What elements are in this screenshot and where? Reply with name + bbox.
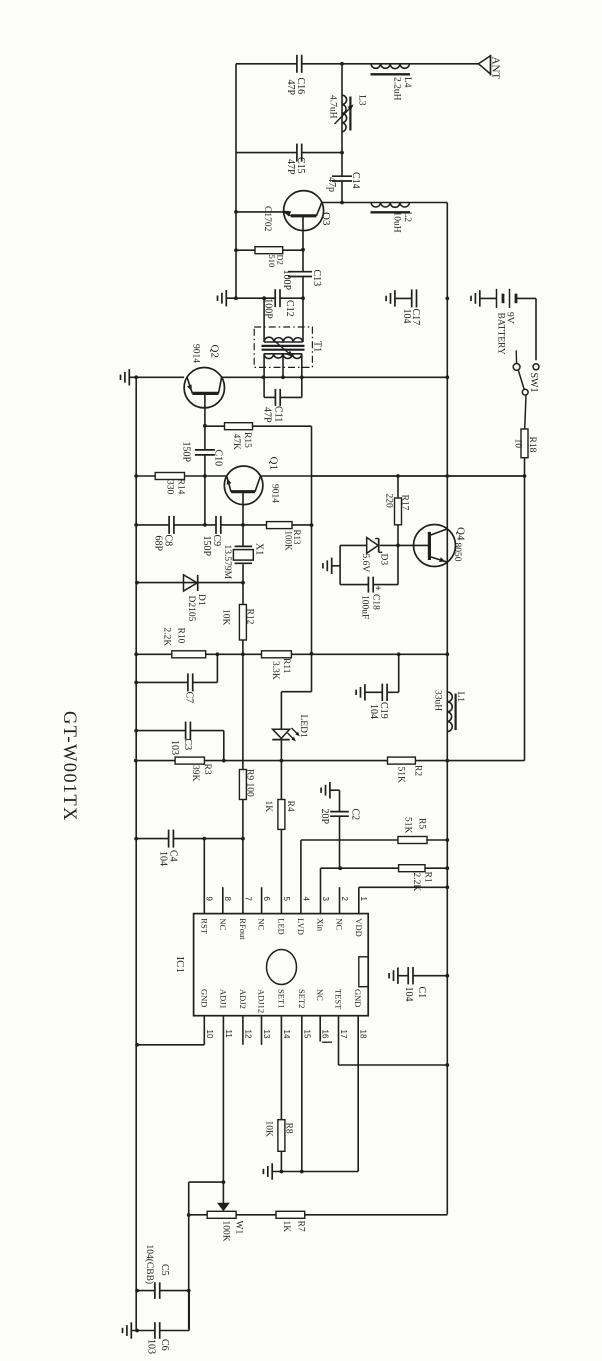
svg-text:D1: D1 bbox=[196, 594, 206, 606]
svg-text:NC: NC bbox=[257, 918, 267, 930]
svg-text:ADJ2: ADJ2 bbox=[238, 989, 248, 1009]
svg-text:Q1: Q1 bbox=[268, 457, 280, 470]
svg-text:9014: 9014 bbox=[270, 484, 280, 503]
svg-text:LED1: LED1 bbox=[298, 715, 308, 738]
svg-text:20P: 20P bbox=[319, 809, 330, 825]
svg-text:NC: NC bbox=[315, 989, 325, 1001]
svg-text:ADJ12: ADJ12 bbox=[257, 989, 267, 1013]
svg-text:D3: D3 bbox=[378, 554, 388, 566]
svg-text:10: 10 bbox=[512, 439, 522, 449]
svg-text:39K: 39K bbox=[190, 765, 200, 782]
svg-text:D2105: D2105 bbox=[186, 596, 196, 622]
svg-text:T1: T1 bbox=[311, 341, 322, 352]
svg-text:13.579M: 13.579M bbox=[222, 545, 232, 580]
svg-text:ANT: ANT bbox=[490, 57, 502, 80]
svg-text:10: 10 bbox=[205, 1030, 214, 1039]
svg-text:SW1: SW1 bbox=[528, 373, 539, 393]
svg-text:47P: 47P bbox=[285, 80, 296, 96]
svg-text:1: 1 bbox=[359, 897, 368, 902]
svg-text:3: 3 bbox=[321, 897, 330, 902]
svg-text:C18: C18 bbox=[371, 594, 381, 610]
svg-text:L3: L3 bbox=[357, 95, 367, 106]
svg-text:NC: NC bbox=[218, 918, 228, 930]
svg-text:Xin: Xin bbox=[316, 918, 326, 932]
svg-text:510: 510 bbox=[267, 255, 277, 268]
svg-text:11: 11 bbox=[224, 1030, 233, 1039]
svg-text:C13: C13 bbox=[311, 270, 322, 287]
svg-text:220: 220 bbox=[384, 494, 394, 509]
svg-text:1K: 1K bbox=[281, 1221, 291, 1233]
svg-text:2: 2 bbox=[340, 897, 349, 902]
svg-text:104: 104 bbox=[401, 309, 412, 324]
svg-text:7: 7 bbox=[243, 897, 252, 902]
svg-text:51K: 51K bbox=[396, 767, 406, 784]
svg-text:Q3: Q3 bbox=[320, 212, 332, 226]
svg-text:330: 330 bbox=[165, 480, 175, 495]
svg-text:+: + bbox=[373, 586, 383, 591]
svg-text:5: 5 bbox=[282, 897, 291, 902]
svg-text:17: 17 bbox=[339, 1030, 348, 1039]
svg-text:C10: C10 bbox=[212, 450, 223, 467]
svg-text:X1: X1 bbox=[253, 543, 264, 555]
svg-text:R14: R14 bbox=[175, 479, 185, 495]
svg-text:103: 103 bbox=[146, 1339, 157, 1354]
svg-text:LVD: LVD bbox=[296, 918, 306, 935]
svg-text:C14: C14 bbox=[350, 172, 361, 189]
svg-text:GND: GND bbox=[353, 989, 363, 1007]
svg-text:2.2K: 2.2K bbox=[411, 873, 421, 892]
svg-text:103: 103 bbox=[169, 740, 180, 755]
svg-text:104(CBB): 104(CBB) bbox=[144, 1245, 155, 1285]
svg-text:R12: R12 bbox=[244, 609, 254, 625]
svg-text:R18: R18 bbox=[527, 437, 537, 453]
svg-text:R10: R10 bbox=[176, 628, 186, 644]
svg-text:IC1: IC1 bbox=[174, 957, 186, 974]
svg-text:100P: 100P bbox=[262, 298, 273, 319]
svg-text:47p: 47p bbox=[326, 177, 337, 192]
svg-text:C7: C7 bbox=[184, 692, 195, 704]
svg-text:5.6V: 5.6V bbox=[360, 554, 370, 573]
svg-text:Q4: Q4 bbox=[455, 527, 467, 541]
svg-text:R15: R15 bbox=[242, 432, 252, 448]
svg-text:L2: L2 bbox=[402, 212, 412, 223]
svg-text:L4: L4 bbox=[402, 77, 412, 88]
svg-text:100uF: 100uF bbox=[360, 595, 370, 619]
svg-text:8050: 8050 bbox=[452, 543, 462, 562]
svg-text:GT-W001TX: GT-W001TX bbox=[59, 711, 79, 822]
svg-text:47P: 47P bbox=[285, 159, 296, 175]
svg-text:R4: R4 bbox=[285, 801, 295, 812]
svg-text:L1: L1 bbox=[455, 692, 465, 703]
svg-text:BATTERY: BATTERY bbox=[495, 313, 505, 355]
svg-text:Q2: Q2 bbox=[209, 345, 221, 358]
svg-text:47P: 47P bbox=[262, 407, 273, 423]
svg-text:47K: 47K bbox=[231, 434, 241, 451]
svg-text:R5: R5 bbox=[416, 818, 426, 829]
svg-text:C1: C1 bbox=[416, 987, 427, 999]
svg-text:10K: 10K bbox=[221, 609, 231, 626]
svg-text:NC: NC bbox=[335, 918, 345, 930]
svg-text:TEST: TEST bbox=[334, 989, 344, 1010]
svg-text:SET1: SET1 bbox=[276, 989, 286, 1008]
svg-text:R7: R7 bbox=[296, 1221, 306, 1232]
svg-text:150P: 150P bbox=[181, 442, 192, 463]
svg-text:150P: 150P bbox=[201, 536, 212, 557]
svg-text:4.7uH: 4.7uH bbox=[328, 95, 338, 119]
svg-text:104: 104 bbox=[158, 851, 169, 866]
svg-text:C3: C3 bbox=[182, 739, 193, 751]
svg-text:R11: R11 bbox=[281, 658, 291, 674]
svg-text:104: 104 bbox=[403, 987, 414, 1002]
svg-text:18: 18 bbox=[359, 1030, 368, 1039]
svg-text:RST: RST bbox=[199, 918, 209, 934]
svg-text:R3: R3 bbox=[202, 764, 212, 775]
svg-text:33uH: 33uH bbox=[433, 690, 443, 711]
svg-text:ADJ1: ADJ1 bbox=[218, 989, 228, 1009]
svg-text:9: 9 bbox=[205, 897, 214, 902]
svg-text:2.2K: 2.2K bbox=[162, 628, 172, 647]
svg-text:68P: 68P bbox=[152, 536, 163, 552]
svg-text:51K: 51K bbox=[403, 817, 413, 834]
svg-text:C12: C12 bbox=[284, 300, 295, 317]
svg-text:100P: 100P bbox=[281, 270, 292, 291]
svg-text:9014: 9014 bbox=[191, 344, 201, 363]
svg-text:C2: C2 bbox=[349, 809, 360, 821]
svg-text:R2: R2 bbox=[413, 765, 423, 776]
svg-text:R1: R1 bbox=[422, 872, 432, 883]
svg-text:2.2uH: 2.2uH bbox=[392, 77, 402, 101]
svg-text:GND: GND bbox=[199, 989, 209, 1007]
svg-text:10uH: 10uH bbox=[392, 212, 402, 233]
svg-text:14: 14 bbox=[282, 1030, 291, 1039]
svg-text:RFout: RFout bbox=[238, 918, 248, 940]
svg-text:6: 6 bbox=[262, 897, 271, 902]
svg-text:C1702: C1702 bbox=[262, 206, 272, 232]
svg-text:LED: LED bbox=[276, 918, 286, 935]
svg-text:3.3K: 3.3K bbox=[270, 661, 280, 680]
svg-text:R8: R8 bbox=[284, 1123, 294, 1134]
svg-text:C5: C5 bbox=[159, 1264, 170, 1276]
svg-text:R9 100: R9 100 bbox=[245, 769, 255, 797]
svg-text:W1: W1 bbox=[234, 1221, 244, 1235]
svg-text:1K: 1K bbox=[263, 801, 273, 813]
svg-text:R17: R17 bbox=[400, 495, 410, 511]
svg-text:100K: 100K bbox=[284, 531, 294, 552]
svg-text:100K: 100K bbox=[221, 1221, 231, 1242]
svg-text:10K: 10K bbox=[264, 1121, 274, 1138]
svg-text:C11: C11 bbox=[272, 406, 283, 422]
svg-text:15: 15 bbox=[302, 1030, 311, 1039]
svg-text:8: 8 bbox=[223, 897, 232, 902]
svg-text:104: 104 bbox=[368, 704, 379, 719]
svg-text:16: 16 bbox=[321, 1030, 330, 1039]
svg-text:12: 12 bbox=[243, 1030, 252, 1039]
svg-text:C6: C6 bbox=[159, 1339, 170, 1351]
svg-text:13: 13 bbox=[262, 1030, 271, 1039]
svg-text:SET2: SET2 bbox=[297, 989, 307, 1008]
svg-text:VDD: VDD bbox=[354, 918, 364, 936]
svg-text:4: 4 bbox=[301, 897, 310, 902]
